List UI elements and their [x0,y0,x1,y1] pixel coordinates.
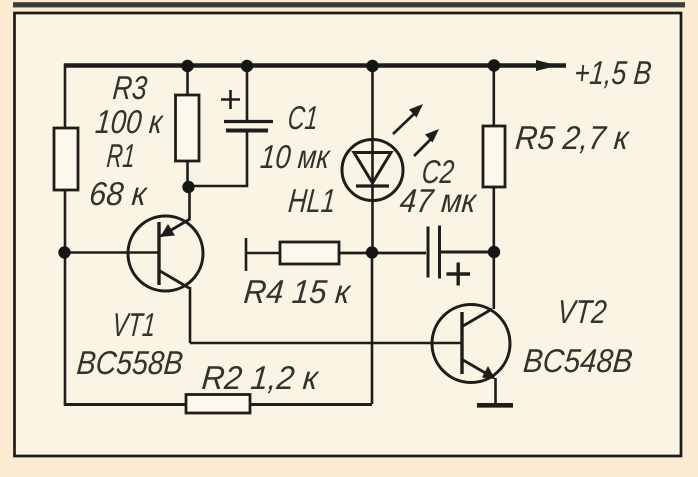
LED HL1 circle [342,140,403,201]
HL1 anode triangle [354,153,391,184]
junction node C2/R5/VT2 collector [488,246,500,258]
svg-text:+1,5 В: +1,5 В [573,55,653,92]
junction node R3/C1/VT1 emitter [182,181,194,193]
svg-text:C1: C1 [286,100,319,137]
HL1 emission arrow 2 [414,129,439,156]
transistor VT1 (PNP) [128,216,203,291]
svg-text:10 мк: 10 мк [259,139,332,176]
resistor R5 [483,126,505,187]
junction node on top rail at R3 [181,60,193,72]
wire: VT1 base lead [65,251,160,254]
junction node on top rail at C1 [241,60,253,72]
wire: VT2 emitter to ground [494,378,497,404]
wire: R4 right lead to C2 [339,252,426,255]
wire: +1.5V top rail [64,63,566,68]
wire: R4 left lead [246,252,280,255]
resistor R3 [176,95,200,161]
svg-text:BC548B: BC548B [522,343,634,380]
capacitor C1 top plate [224,120,273,123]
svg-text:R5 2,7 к: R5 2,7 к [514,120,632,157]
scan artifact strip at top [13,2,685,7]
resistor R4 [280,242,339,264]
resistor R2 [186,395,250,414]
ground [477,403,513,408]
svg-text:R1: R1 [105,138,136,175]
junction node left rail / VT1 base [58,246,70,258]
wire: mid vertical (R2 to R4/C2 node) [371,252,374,404]
svg-text:R4 15 к: R4 15 к [242,274,353,311]
resistor R1 [54,128,78,190]
wire: R3 branch [186,65,189,187]
capacitor C1 bottom plate [226,129,268,133]
wire: C1 top stem [246,65,249,121]
C2 polarity plus [447,263,471,286]
junction node on top rail at HL1 [366,60,378,72]
supply arrowhead [536,60,558,71]
wire: VT1 emitter lead [188,187,191,220]
wire: C2 to R5 node [440,251,494,254]
svg-text:HL1: HL1 [287,183,337,220]
junction node R4/C2/R2 [366,246,378,258]
wire: LED branch vertical [371,65,374,252]
transistor VT2 (NPN) [432,305,510,383]
wire: bottom rail [64,403,372,406]
svg-text:100 к: 100 к [94,104,165,141]
svg-text:BC558B: BC558B [75,345,184,382]
wire: C1 bottom stem to R3 node [189,131,247,186]
R4 left terminal tick [245,238,248,271]
svg-text:47 мк: 47 мк [398,183,478,220]
wire: R5 / VT2 collector vertical [492,65,495,309]
wire: VT1 collector lead down [189,287,192,343]
svg-text:68 к: 68 к [88,176,150,213]
svg-text:VT1: VT1 [111,307,157,344]
HL1 cathode bar [356,184,389,187]
HL1 emission arrow 1 [393,104,423,134]
C1 polarity plus [221,90,240,109]
wire: left vertical rail [64,64,67,405]
capacitor C2 left plate [427,227,430,278]
junction node on top rail at R5 [488,59,500,71]
svg-text:R2 1,2 к: R2 1,2 к [200,360,321,397]
svg-text:R3: R3 [111,70,149,107]
wire: VT1 collector to VT2 base [190,342,462,344]
svg-text:VT2: VT2 [556,294,608,331]
capacitor C2 right plate [438,226,441,279]
